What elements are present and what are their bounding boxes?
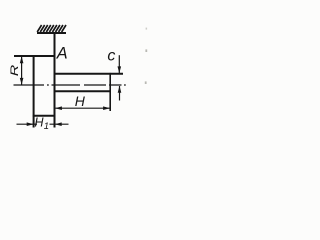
shaft top line with c extension [55,73,124,75]
dimension c up arrow line [119,86,121,101]
dimension H1 line right segment with outside arrow [50,123,69,125]
dimension H1 line left segment with outside arrow [17,123,38,125]
svg-text:1: 1 [44,121,49,132]
svg-text:c: c [107,48,115,65]
fixed support base line [37,32,66,34]
shaft bottom line [55,90,111,92]
dimension R arrowhead down [20,78,24,85]
dimension H arrowhead right [103,106,110,110]
scan speck right edge 2 [145,81,147,84]
dimension c down arrowhead [118,66,122,73]
flange left edge with H1 extension [33,56,35,128]
dimension R line [21,56,23,85]
dimension H arrowhead left [55,106,62,110]
center line (dash-dot axis) [14,84,126,86]
flange bottom line [33,115,55,117]
dimension c down arrow line [118,55,120,73]
dimension H1 arrowhead left-pointing [55,122,62,126]
dimension H1 arrowhead right-pointing [27,122,34,126]
dimension H line [55,107,110,109]
flange top line with R extension [14,55,55,57]
scan speck right edge 1 [145,49,147,52]
dimension R arrowhead up [20,56,24,63]
svg-text:A: A [56,45,68,63]
scan speck right edge 3 [146,28,148,30]
svg-text:H: H [75,93,86,109]
fixed support hatching [37,25,66,32]
svg-text:R: R [8,65,20,77]
shaft right end cap with H extension [109,73,111,111]
dimension c up arrowhead [118,86,122,93]
rod A / flange right edge (continuous vertical, with H1 extension) [54,33,56,128]
